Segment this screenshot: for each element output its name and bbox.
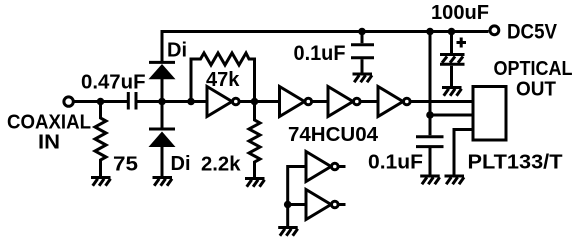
svg-text:OPTICAL: OPTICAL bbox=[494, 58, 573, 80]
svg-text:0.1uF: 0.1uF bbox=[294, 42, 346, 65]
label 2.2k bbox=[201, 154, 241, 176]
label Di lower bbox=[171, 153, 191, 175]
capacitor 0.1uF top decoupling bbox=[351, 33, 374, 73]
svg-text:Di: Di bbox=[167, 40, 187, 62]
svg-text:Di: Di bbox=[171, 153, 191, 175]
label 100uF bbox=[431, 2, 489, 24]
svg-text:IN: IN bbox=[38, 132, 60, 154]
wire to module pin 2 bbox=[430, 114, 473, 117]
inverter U1D bbox=[378, 87, 410, 117]
ground for module bbox=[445, 176, 465, 184]
ground for 100uF bbox=[442, 88, 462, 96]
label PLT133/T bbox=[468, 152, 563, 174]
label 0.47uF bbox=[81, 72, 146, 94]
wire U1D output to module pin 1 bbox=[411, 100, 474, 103]
node feedback loop left junction bbox=[187, 98, 195, 106]
svg-text:COAXIAL: COAXIAL bbox=[7, 112, 91, 134]
ground for 2.2k bbox=[245, 179, 265, 187]
inverter U1E spare bbox=[306, 152, 346, 182]
wire U1B to U1C bbox=[312, 100, 328, 103]
label DC5V bbox=[507, 21, 557, 44]
label 47k bbox=[206, 69, 240, 91]
label COAXIAL IN bbox=[7, 112, 91, 154]
svg-text:DC5V: DC5V bbox=[507, 21, 557, 44]
resistor 47k feedback bbox=[191, 53, 255, 102]
node VCC / module pin 2 tap bbox=[426, 111, 434, 119]
label + polarity bbox=[457, 38, 467, 48]
inverter U1F spare bbox=[306, 190, 346, 220]
svg-text:100uF: 100uF bbox=[431, 2, 489, 24]
wire U1C to U1D bbox=[361, 100, 379, 103]
terminal DC5V bbox=[490, 26, 499, 35]
wire input to coupling cap bbox=[75, 100, 128, 103]
node rail / VCC drop bbox=[426, 28, 434, 36]
label 74HCU04 bbox=[288, 124, 379, 146]
capacitor 0.1uF bottom decoupling bbox=[416, 137, 444, 175]
svg-text:PLT133/T: PLT133/T bbox=[468, 152, 563, 174]
wire VCC drop to module and cap bbox=[429, 33, 432, 135]
label 75 bbox=[113, 154, 138, 176]
inverter U1B bbox=[280, 87, 312, 117]
node spare input junction bbox=[284, 201, 292, 209]
wire module pin 3 to ground bbox=[454, 130, 473, 175]
wire U1A to U1B bbox=[240, 100, 280, 103]
ground for 75 bbox=[91, 178, 111, 186]
ground for spare inverters bbox=[278, 228, 298, 236]
node 2.2k junction bbox=[251, 98, 259, 106]
resistor 2.2k bbox=[249, 103, 260, 177]
capacitor 0.47uF coupling bbox=[128, 92, 136, 110]
terminal J1 coaxial input bbox=[64, 97, 73, 106]
node input / 75 ohm junction bbox=[97, 98, 105, 106]
ground for lower diode bbox=[153, 178, 173, 186]
resistor 75 bbox=[95, 102, 106, 177]
module PLT133/T optical transmitter bbox=[473, 87, 506, 141]
diode Di lower (clamp to ground) bbox=[149, 103, 176, 176]
inverter U1C bbox=[328, 87, 360, 117]
wire spare inverter input bus bbox=[288, 167, 306, 227]
label OPTICAL OUT bbox=[494, 58, 573, 101]
svg-text:75: 75 bbox=[113, 154, 138, 176]
node rail / 100uF tap bbox=[448, 28, 456, 36]
wire cap to inverter input bbox=[138, 100, 208, 103]
svg-text:74HCU04: 74HCU04 bbox=[288, 124, 379, 146]
node diode clamp junction bbox=[158, 98, 166, 106]
label Di upper bbox=[167, 40, 187, 62]
ground for 0.1uF top bbox=[353, 74, 373, 82]
power rail +5V bbox=[161, 30, 489, 33]
svg-text:0.1uF: 0.1uF bbox=[368, 152, 423, 174]
svg-text:2.2k: 2.2k bbox=[201, 154, 241, 176]
node rail / 0.1uF tap bbox=[358, 28, 366, 36]
label 0.1uF bottom bbox=[368, 152, 423, 174]
inverter U1A bbox=[207, 87, 239, 117]
capacitor 100uF electrolytic bbox=[440, 33, 465, 86]
label 0.1uF top bbox=[294, 42, 346, 65]
svg-text:OUT: OUT bbox=[516, 79, 556, 101]
svg-text:0.47uF: 0.47uF bbox=[81, 72, 146, 94]
diode Di upper (clamp to +5V) bbox=[149, 30, 176, 100]
ground for 0.1uF bottom bbox=[420, 176, 440, 184]
